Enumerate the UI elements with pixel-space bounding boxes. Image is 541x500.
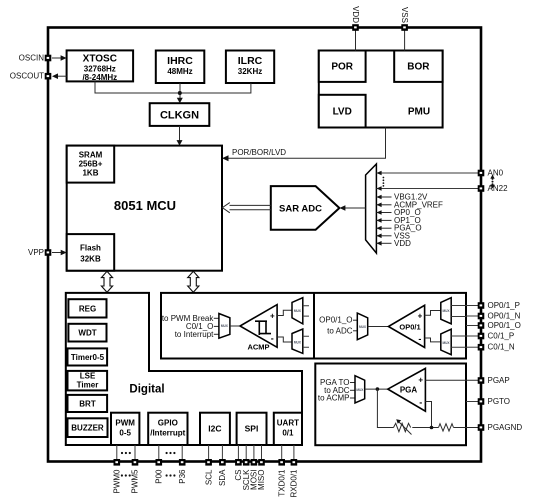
svg-text:OP0/1_O: OP0/1_O [488,321,521,330]
svg-text:WDT: WDT [78,329,96,338]
svg-text:MUX: MUX [356,388,364,392]
svg-text:ILRC: ILRC [238,55,263,67]
svg-text:Flash: Flash [80,244,101,253]
node to ADC pga [324,386,355,395]
pin PWM0 [113,459,122,494]
svg-text:32KB: 32KB [80,255,101,264]
wire XTOSC to clock bus [95,81,180,93]
pin OP0/1_P [478,301,520,310]
svg-text:MUX: MUX [359,325,367,329]
svg-text:CLKGN: CLKGN [160,110,199,122]
arrowhead AN0 into MUX [376,171,381,176]
svg-text:ACMP: ACMP [247,343,269,352]
wire feedback mid [412,427,438,429]
wire pin OP0/1_N [466,315,481,317]
svg-text:SDA: SDA [218,469,227,486]
svg-text:PWM5: PWM5 [131,469,140,494]
block BUZZER [68,418,108,437]
svg-text:IHRC: IHRC [167,55,193,67]
pin PWM5 [131,459,140,494]
arrowhead VPP [61,250,67,256]
wire ACMP plus input [277,310,292,315]
pin OSCIN [19,54,52,63]
svg-text:-: - [418,334,421,344]
pin MISO [257,459,266,490]
dots between GPIO labels [166,474,176,476]
pin OSCOUT [10,72,52,81]
pin C0/1_P [478,332,514,341]
pin VPP [28,248,51,257]
block REG [68,299,106,317]
svg-text:MUX: MUX [294,341,302,345]
dots GPIO stubs [166,452,176,454]
wire VSS pin to PMU [404,30,406,51]
svg-text:I2C: I2C [208,424,221,434]
wire PGA plus output to PGAP [425,379,481,381]
arrowhead into SAR ADC apex [339,205,345,211]
svg-text:32KHz: 32KHz [238,67,262,76]
block Flash [67,234,115,271]
node VBG1.2V [376,193,428,202]
wire AN22 to MUX [376,188,481,190]
junction PGA minus node [430,426,434,430]
svg-text:OP0/1: OP0/1 [399,322,420,331]
svg-text:OP0/1_O: OP0/1_O [319,316,352,325]
pin VSS [400,7,409,31]
junction clock bus [178,91,182,95]
svg-text:1KB: 1KB [82,168,98,177]
divider ACMP/OP [313,293,315,359]
pin PGTO [478,397,510,406]
bus arrow MCU to analog block [188,271,199,292]
block PMU [319,51,443,128]
pin CS [234,459,243,481]
junction PGA feedback left [376,387,380,391]
op-amp MCU block 8051 [67,146,222,271]
pin AN22 [478,184,508,193]
dots between PWM labels [121,474,131,476]
block BOR [394,51,442,82]
svg-text:-: - [419,397,422,407]
svg-text:PGAGND: PGAGND [488,423,523,432]
wire pin C0/1_P [466,335,481,337]
block POR [319,51,366,82]
wire OP plus input [425,311,441,316]
pin SCLK [242,459,251,490]
wire mux to PGA apex [365,388,389,390]
pin C0/1_N [478,343,515,352]
svg-text:MUX: MUX [221,324,229,328]
svg-text:MUX: MUX [294,309,302,313]
svg-text:OP0/1_N: OP0/1_N [488,312,521,321]
svg-text:OSCOUT: OSCOUT [10,72,44,81]
svg-text:0/1: 0/1 [282,429,294,438]
block BRT [68,395,108,412]
arrowhead into MCU top [177,140,183,146]
wire PGA feedback down [377,389,393,427]
pin P00 [155,459,164,484]
svg-text:REG: REG [79,304,96,313]
svg-text:GPIO: GPIO [158,419,178,428]
block analog ACMP/OP [161,293,466,359]
svg-text:LVD: LVD [333,107,352,118]
block PGA section [315,364,466,446]
stub OP plus mux inputs [451,306,466,317]
node to PWM Break [162,314,219,323]
block GPIO/Interrupt [148,413,187,445]
wire OP minus input [425,338,441,342]
wire pin PGTO [466,401,481,403]
block WDT [68,324,106,342]
block PWM 0-5 [111,413,139,445]
mux OP plus select [441,298,451,324]
wire pin stub CS [237,445,239,459]
block SRAM [67,146,115,183]
block XTOSC [67,50,134,82]
svg-text:PGAP: PGAP [488,376,510,385]
svg-text:MUX: MUX [442,341,450,345]
node to ADC [327,326,357,335]
svg-text:0-5: 0-5 [119,429,131,438]
svg-text:LSE: LSE [80,372,96,381]
svg-text:AN0: AN0 [488,169,504,178]
svg-text:SAR ADC: SAR ADC [279,204,322,215]
wire pin stub P36 [181,445,183,459]
svg-text:48MHz: 48MHz [167,67,192,76]
wire pin stub RXD0/1 [293,445,295,459]
wire PMU to MCU POR/BOR/LVD [226,128,386,159]
svg-text:MUX: MUX [442,309,450,313]
svg-text:VSS: VSS [400,7,409,23]
wire pin stub P00 [158,445,160,459]
pin AN0 [478,169,504,178]
svg-text:to ACMP: to ACMP [318,394,350,403]
node VSS [376,231,410,240]
block SAR ADC [271,186,340,230]
svg-text:to Interrupt: to Interrupt [175,330,214,339]
wire VDD pin to PMU [355,30,357,51]
svg-text:+: + [418,311,423,320]
block ILRC [226,51,274,84]
svg-text:to ADC: to ADC [327,326,353,335]
svg-text:+: + [418,376,423,385]
chip boundary frame [48,28,481,462]
wire pin stub MISO [261,445,263,459]
pin OP0/1_N [478,312,521,321]
wire pin stub TXD0/1 [281,445,283,459]
wire pin stub PWM5 [134,445,136,459]
arrowhead AN22 into MUX [376,186,381,191]
pin SCL [204,459,213,485]
svg-text:/8-24MHz: /8-24MHz [82,73,117,82]
svg-text:P36: P36 [178,469,187,484]
mux ADC input MUX [366,164,377,253]
wire pin OP0/1_P [466,305,481,307]
arrowhead POR/BOR/LVD into MCU [222,155,229,161]
svg-text:-: - [271,333,274,343]
arrowhead OSCIN [61,55,67,61]
wire MUX to SAR ADC [344,207,366,209]
block Timer0-5 [68,348,108,365]
svg-text:/Interrupt: /Interrupt [150,429,185,438]
wire pin stub SCLK [245,445,247,459]
block LVD [319,95,366,128]
wire OSCIN into XTOSC [52,57,63,59]
stub OP minus mux inputs [451,336,466,347]
bus arrow MCU to Digital [101,271,112,292]
svg-text:UART: UART [277,419,299,428]
node OP0/1_O [319,316,357,325]
arrowhead into CLKGN [177,98,183,104]
svg-text:XTOSC: XTOSC [83,54,117,65]
svg-text:256B+: 256B+ [79,159,103,168]
svg-text:VPP: VPP [28,248,44,257]
wire pin stub MOSI [253,445,255,459]
mux ACMP output routing [219,314,230,339]
svg-text:+: + [270,311,275,320]
dots PWM stubs [121,452,131,454]
arrowhead OSCOUT [52,73,58,79]
svg-text:C0/1_P: C0/1_P [488,332,515,341]
svg-text:OP0/1_P: OP0/1_P [488,301,520,310]
pin RXD0/1 [290,459,299,498]
svg-text:PWM: PWM [115,419,135,428]
mux ACMP plus select [292,298,303,324]
pin TXD0/1 [277,459,286,497]
dots between AN inputs [383,177,385,187]
svg-text:AN22: AN22 [488,184,509,193]
op-amp OP0/1 [388,305,424,347]
block CLKGN [150,103,210,126]
svg-text:PGA: PGA [400,385,418,394]
svg-text:BRT: BRT [79,399,96,408]
block UART 0/1 [274,413,302,445]
stub ACMP plus mux inputs [303,306,309,316]
svg-text:VDD: VDD [351,6,360,23]
pin PGAP [478,376,510,385]
wire ACMP minus input [277,337,292,342]
stub ACMP minus mux inputs [303,336,309,347]
block I2C [200,413,230,445]
pin P36 [178,459,187,484]
svg-text:SCL: SCL [204,469,213,485]
svg-text:RXD0/1: RXD0/1 [290,469,299,498]
block LSE Timer [68,371,108,391]
wire mux to OP apex [368,326,390,328]
wire CLKGN to MCU [179,126,181,142]
svg-text:MISO: MISO [257,470,266,490]
wire VPP into Flash [52,252,63,254]
node to ACMP pga [318,394,355,403]
wire PGA minus input [425,402,431,428]
block Digital [66,293,302,445]
mux OP input select [357,313,367,340]
svg-text:Timer: Timer [77,381,99,390]
svg-text:BOR: BOR [407,62,430,73]
node PGA_O [376,224,421,233]
wire to PGAGND pin [454,427,482,429]
block IHRC [156,51,205,84]
wire pin OP0/1_O [466,325,481,327]
op-amp ACMP [240,305,277,352]
wire pin stub PWM0 [116,445,118,459]
svg-text:C0/1_N: C0/1_N [488,343,515,352]
wire pin stub SDA [221,445,223,459]
mux PGA routing [355,376,365,403]
block SPI [237,413,267,445]
node C0/1_O [186,322,219,331]
pin VDD [351,6,360,31]
resistor variable gain [394,419,412,434]
svg-text:Digital: Digital [129,384,164,396]
node VDD [376,239,411,248]
wire pin C0/1_N [466,346,481,348]
wire mux to ACMP apex [230,325,241,327]
node PGA TO [320,378,355,387]
svg-text:SRAM: SRAM [79,150,103,159]
node OP1_O [376,216,420,225]
svg-text:TXD0/1: TXD0/1 [277,469,286,497]
mux ACMP minus select [292,329,303,353]
op-amp PGA [388,368,426,411]
wire IHRC to CLKGN [179,83,181,99]
pin OP0/1_O [478,321,521,330]
node OP0_O [376,208,420,217]
pin MOSI [250,459,259,490]
mux OP minus select [441,329,451,355]
svg-text:PMU: PMU [408,107,430,118]
svg-text:8051 MCU: 8051 MCU [114,198,176,213]
node to Interrupt [175,330,219,339]
bus arrow SAR ADC to MCU [222,203,270,213]
wire OSCOUT from XTOSC [58,75,67,77]
pin SDA [218,459,227,486]
svg-text:POR/BOR/LVD: POR/BOR/LVD [232,148,286,157]
svg-text:VDD: VDD [394,239,411,248]
wire AN0 to MUX [376,172,481,174]
resistor PGAGND [439,424,454,431]
svg-text:Timer0-5: Timer0-5 [71,353,105,362]
svg-text:BUZZER: BUZZER [71,424,104,433]
wire pin stub SCL [208,445,210,459]
svg-text:P00: P00 [155,469,164,484]
svg-text:PGTO: PGTO [488,397,511,406]
pin PGAGND [478,423,523,432]
svg-text:SPI: SPI [245,424,259,434]
wire ILRC to clock bus [180,83,251,93]
svg-text:POR: POR [331,62,353,73]
node ACMP_VREF [376,200,443,209]
svg-text:OSCIN: OSCIN [19,54,45,63]
dotted arrow between AN0 and AN22 [490,175,494,189]
svg-text:PWM0: PWM0 [113,469,122,494]
